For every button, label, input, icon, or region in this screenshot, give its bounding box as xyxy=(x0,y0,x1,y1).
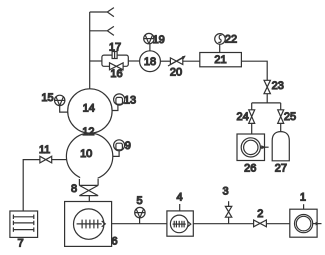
wire above valve 3 xyxy=(228,201,230,206)
label 13 xyxy=(124,94,136,106)
svg-text:3: 3 xyxy=(222,185,228,197)
gas bottle 27 xyxy=(272,132,289,161)
label 15 xyxy=(41,92,53,104)
control valve 20 xyxy=(168,56,186,66)
pump 1 xyxy=(290,209,317,237)
svg-text:19: 19 xyxy=(153,34,165,46)
wire 20 to box 21 xyxy=(183,60,200,62)
svg-text:1: 1 xyxy=(300,191,306,203)
label 24 xyxy=(236,111,248,123)
analyzer box 21 xyxy=(200,53,242,67)
label 21 xyxy=(214,54,226,66)
label 6 xyxy=(111,236,117,248)
svg-text:15: 15 xyxy=(41,92,53,104)
label 18 xyxy=(144,56,156,68)
wire valve 11 to cooler 7 xyxy=(23,160,40,211)
valve 24 xyxy=(249,110,255,124)
label 25 xyxy=(284,111,296,123)
wire 21 to valve 23 xyxy=(241,61,267,80)
vessel 10 neck xyxy=(79,179,98,185)
valve 25 xyxy=(278,110,284,124)
svg-text:24: 24 xyxy=(236,111,248,123)
svg-text:17: 17 xyxy=(109,42,121,54)
svg-text:21: 21 xyxy=(214,54,226,66)
wire 15 to vessel 14 xyxy=(60,106,68,113)
label 4 xyxy=(176,191,182,203)
label 26 xyxy=(244,163,256,175)
cooler 7 xyxy=(10,211,38,237)
label 27 xyxy=(275,163,287,175)
wire stub to gauge 5 xyxy=(139,218,141,224)
wire tee to valve 25 xyxy=(280,103,282,110)
wire stub valve 3 xyxy=(228,217,230,224)
label 8 xyxy=(71,183,77,195)
vent V2 xyxy=(90,26,114,35)
valve 23 xyxy=(264,80,270,93)
vessel 10 xyxy=(66,133,112,181)
sensor 13 xyxy=(114,94,125,105)
svg-text:18: 18 xyxy=(144,56,156,68)
wire 25 to bottle 27 xyxy=(280,123,282,131)
wire vessel 10 to valve 11 xyxy=(52,159,67,161)
wire 24 to pump 26 xyxy=(251,123,253,134)
svg-text:6: 6 xyxy=(111,236,117,248)
wire tee header xyxy=(252,102,281,104)
pump U18 xyxy=(140,51,161,72)
label 10 xyxy=(80,148,92,160)
label 11 xyxy=(39,144,50,156)
wire 9 to vessel 10 xyxy=(113,151,120,157)
svg-text:7: 7 xyxy=(18,238,24,250)
vessel 14 xyxy=(68,89,112,133)
vent V1 top xyxy=(90,8,114,17)
wire 4 to valve 2 xyxy=(193,223,253,225)
wire 23 to tee xyxy=(266,94,268,103)
wire loop to pump 18 xyxy=(128,60,139,62)
pump box 26 xyxy=(237,134,269,161)
label 12 node xyxy=(82,126,94,138)
label 1 leader xyxy=(303,204,305,209)
svg-text:4: 4 xyxy=(176,191,182,203)
label 1 xyxy=(300,191,306,203)
label 14 xyxy=(83,102,95,114)
wire 13 to vessel 14 xyxy=(112,105,118,111)
orifice 17 xyxy=(112,52,117,59)
sensor 9 xyxy=(114,140,125,151)
svg-text:5: 5 xyxy=(136,195,142,207)
wire 18 to 19 xyxy=(149,44,151,51)
label 3 xyxy=(222,185,228,197)
outlet arrow xyxy=(313,222,322,226)
svg-text:2: 2 xyxy=(257,208,263,220)
gauge 5 xyxy=(135,207,145,217)
valve 3 xyxy=(225,206,231,217)
svg-text:22: 22 xyxy=(225,34,237,46)
svg-text:14: 14 xyxy=(83,102,95,114)
svg-text:13: 13 xyxy=(124,94,136,106)
valve 2 xyxy=(254,220,267,227)
wire to bypass loop xyxy=(90,60,102,62)
svg-text:26: 26 xyxy=(244,163,256,175)
svg-text:10: 10 xyxy=(80,148,92,160)
label 5 xyxy=(136,195,142,207)
bypass loop 16 xyxy=(102,55,128,66)
label 4 leader xyxy=(179,204,181,211)
svg-text:27: 27 xyxy=(275,163,287,175)
label 23 xyxy=(272,80,284,92)
wire main line 6 to 4 xyxy=(112,223,167,225)
svg-text:11: 11 xyxy=(39,144,50,156)
valve 11 xyxy=(40,156,52,163)
wire 18 to valve 20 xyxy=(160,60,170,62)
label 19 xyxy=(153,34,165,46)
label 17 xyxy=(109,42,121,54)
flowmeter 4 xyxy=(167,211,193,236)
pump 6 xyxy=(65,202,112,247)
valve 8 xyxy=(79,185,98,195)
gauge 22 xyxy=(215,34,226,45)
svg-text:12: 12 xyxy=(82,126,94,138)
label 20 xyxy=(170,67,182,79)
wire 21 to gauge 22 xyxy=(219,44,221,52)
label 22 xyxy=(225,34,237,46)
label 9 xyxy=(125,140,131,152)
svg-text:16: 16 xyxy=(110,68,122,80)
wire tee to valve 24 xyxy=(251,103,253,110)
valve 16 xyxy=(110,63,124,70)
wire valve 8 to pump 6 xyxy=(88,196,90,202)
svg-text:8: 8 xyxy=(71,183,77,195)
svg-text:9: 9 xyxy=(125,140,131,152)
svg-text:25: 25 xyxy=(284,111,296,123)
label 7 xyxy=(18,238,24,250)
wire valve 2 to pump 1 xyxy=(266,223,289,225)
gauge 19 xyxy=(144,33,154,43)
svg-text:23: 23 xyxy=(272,80,284,92)
label 2 xyxy=(257,208,263,220)
wire vent stack vertical xyxy=(89,12,91,89)
label 16 xyxy=(110,68,122,80)
gauge 15 xyxy=(55,95,65,105)
svg-text:20: 20 xyxy=(170,67,182,79)
